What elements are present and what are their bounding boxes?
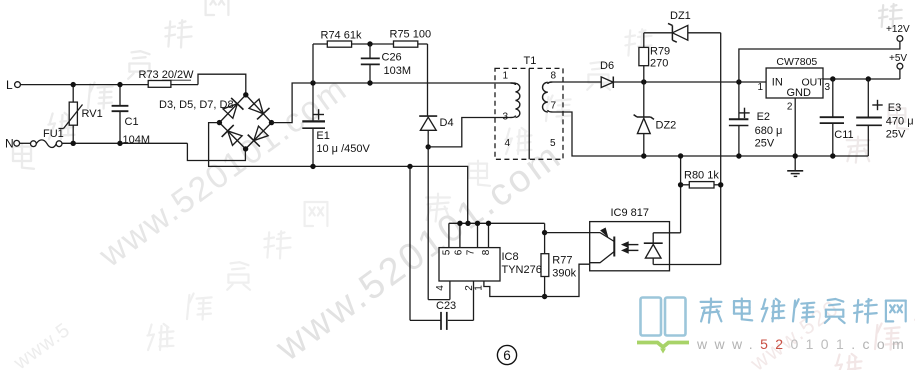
svg-text:1: 1 [474, 285, 485, 291]
svg-text:R75 100: R75 100 [390, 29, 432, 41]
svg-text:TYN276: TYN276 [502, 264, 542, 276]
svg-text:R77: R77 [552, 255, 572, 267]
svg-text:C11: C11 [834, 129, 853, 141]
svg-text:www.520101.com: www.520101.com [696, 336, 911, 352]
svg-text:25V: 25V [886, 129, 906, 141]
svg-text:D3, D5, D7, D8: D3, D5, D7, D8 [159, 99, 234, 111]
svg-text:+5V: +5V [889, 53, 907, 64]
svg-text:www.520101.com: www.520101.com [268, 134, 570, 370]
svg-text:IN: IN [772, 77, 783, 89]
svg-text:3: 3 [825, 82, 831, 93]
svg-text:DZ2: DZ2 [656, 120, 677, 132]
svg-text:C23: C23 [436, 300, 456, 312]
svg-text:470 μ: 470 μ [886, 116, 914, 128]
svg-text:E1: E1 [316, 130, 329, 142]
svg-text:D6: D6 [600, 60, 614, 72]
svg-text:R80 1k: R80 1k [684, 170, 719, 182]
svg-text:5: 5 [441, 249, 452, 255]
svg-text:103M: 103M [384, 65, 412, 77]
svg-text:GND: GND [787, 87, 812, 99]
svg-text:25V: 25V [755, 138, 775, 150]
svg-text:IC8: IC8 [502, 251, 519, 263]
svg-text:104M: 104M [123, 134, 151, 146]
svg-text:5: 5 [550, 138, 556, 149]
svg-text:8: 8 [551, 71, 557, 82]
svg-text:270: 270 [650, 58, 668, 70]
svg-text:390k: 390k [552, 268, 576, 280]
svg-text:N: N [5, 137, 14, 151]
svg-text:E2: E2 [757, 111, 770, 123]
svg-text:6: 6 [453, 249, 464, 255]
svg-text:+12V: +12V [886, 24, 910, 35]
svg-text:R79: R79 [650, 46, 670, 58]
svg-text:680 μ: 680 μ [755, 125, 783, 137]
svg-text:R73 20/2W: R73 20/2W [139, 69, 195, 81]
svg-text:L: L [6, 78, 13, 92]
svg-text:IC9 817: IC9 817 [611, 207, 650, 219]
svg-text:1: 1 [503, 71, 509, 82]
svg-text:C1: C1 [125, 116, 139, 128]
svg-text:DZ1: DZ1 [670, 10, 691, 22]
svg-text:10 μ /450V: 10 μ /450V [316, 143, 370, 155]
svg-text:D4: D4 [440, 117, 454, 129]
svg-text:3: 3 [503, 112, 509, 123]
svg-text:C26: C26 [382, 52, 402, 64]
svg-text:7: 7 [551, 101, 557, 112]
svg-text:RV1: RV1 [82, 108, 103, 120]
svg-text:6: 6 [503, 348, 511, 363]
svg-text:7: 7 [466, 249, 477, 255]
svg-text:T1: T1 [524, 55, 537, 67]
svg-text:1: 1 [758, 82, 764, 93]
svg-text:FU1: FU1 [43, 128, 64, 140]
svg-text:E3: E3 [888, 102, 901, 114]
svg-text:CW7805: CW7805 [776, 56, 817, 68]
svg-text:4: 4 [435, 285, 446, 291]
svg-text:www.5: www.5 [9, 319, 74, 370]
svg-text:R74 61k: R74 61k [321, 30, 362, 42]
svg-text:2: 2 [787, 102, 793, 113]
svg-text:8: 8 [481, 249, 492, 255]
svg-text:4: 4 [505, 138, 511, 149]
